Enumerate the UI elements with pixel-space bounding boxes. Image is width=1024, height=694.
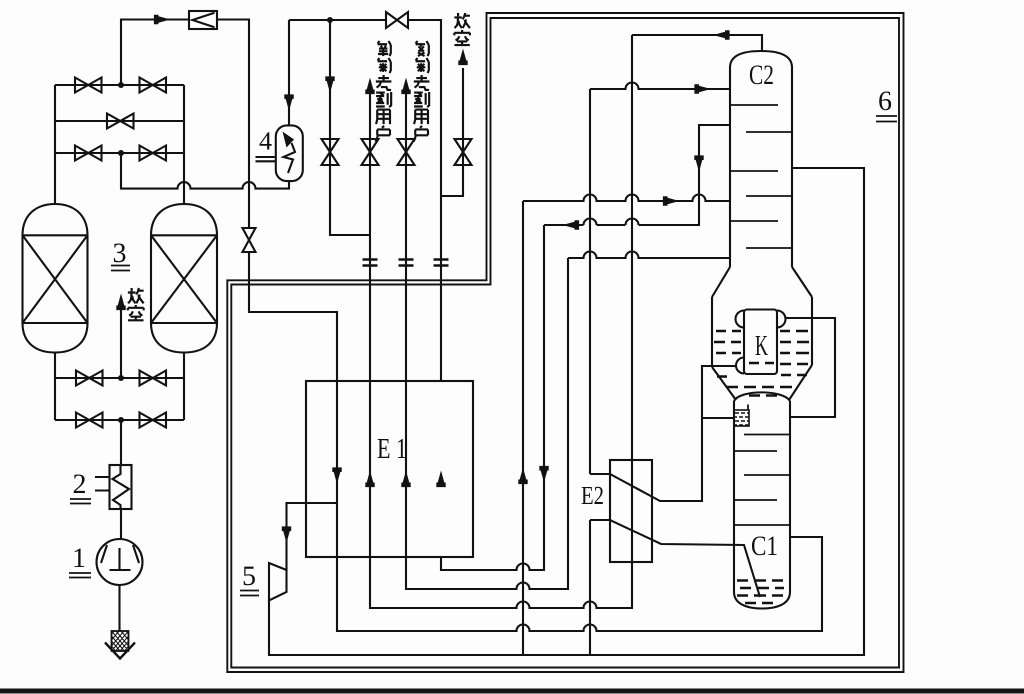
suction filter with hatch: [105, 631, 135, 659]
bottom scan bar: [0, 689, 1024, 694]
C1 tray 1: [744, 434, 790, 436]
wire: oxygen return line yC608: [370, 35, 632, 608]
C1 tray 2: [734, 450, 777, 452]
C1 tray 5: [734, 524, 790, 526]
instrument 4 connection ticks: [256, 157, 276, 161]
valve V1a row85 left: [75, 78, 102, 93]
C2 tray 4: [746, 195, 792, 197]
valve V9 oxygen: [362, 139, 379, 165]
arrow right on H1: [663, 196, 680, 205]
wire: E2 upper pass: [590, 366, 736, 501]
liquid level dashes in C1 sump: [737, 581, 784, 604]
label: vent text top right: [454, 13, 470, 45]
cold box wall crossing ticks on oxygen line: [363, 260, 378, 266]
label 5 with double underline: [240, 561, 259, 596]
wire: upper valve row y85: [55, 84, 184, 86]
svg-text:1: 1: [72, 543, 86, 574]
C1 tray 3: [744, 474, 790, 476]
condenser shell cone top: [712, 267, 812, 297]
wire: instrument return line from J2 down and right to capsule 4: [121, 153, 289, 189]
arrow left on H2: [563, 220, 580, 229]
C1 tray 4: [734, 499, 777, 501]
wire: E2 upper pass branch into C1 hatch feed: [702, 417, 734, 419]
turbo expander 5: [269, 563, 287, 601]
pointer inside instrument 4: [283, 132, 295, 148]
condenser shell walls: [712, 297, 812, 367]
node J5 on header: [327, 17, 333, 23]
lower column C1 walls: [734, 401, 790, 592]
valve V2 row121 center: [107, 114, 134, 129]
svg-text:K: K: [755, 330, 768, 362]
arrow down on vent return riser: [539, 466, 548, 483]
wire: C2 overhead gas line to oxygen return: [632, 35, 762, 51]
wire: E2 lower pass into C1 sump: [590, 520, 760, 597]
wire: adsorber A top riser: [54, 85, 56, 204]
C2 tray 2: [746, 131, 792, 133]
wire: air feed line yD631 to column C1: [337, 537, 822, 631]
wire: reflux line H0 into C2 top: [590, 83, 730, 475]
valve V4a row378 left: [76, 371, 103, 386]
label: nitrogen-to-users column text: [414, 41, 430, 142]
valve V4b row378 right: [140, 371, 167, 386]
wire: compressor suction: [118, 585, 120, 631]
wire: product header y20: [289, 20, 441, 381]
wire: adsorber B bottom riser: [183, 353, 185, 421]
cold box wall crossing ticks on vent line: [434, 260, 449, 266]
arrow down into instrument 4: [284, 94, 293, 111]
adsorber vessel 3A: [23, 204, 88, 353]
label: vent text at adsorbers: [128, 288, 144, 320]
C2 tray 1: [730, 104, 778, 106]
throttle hatch box on C1 top: [734, 405, 749, 427]
wire: HX2 to compressor: [120, 509, 122, 539]
svg-text:4: 4: [259, 127, 272, 156]
wire: oxygen product line x370: [369, 92, 371, 557]
cold box 6 inner border: [231, 18, 899, 668]
condenser shell cone bottom: [712, 365, 812, 400]
wire: vent return line yA570: [441, 225, 544, 570]
valve V3a row153 left: [75, 146, 102, 161]
wire: bottom valve row y420: [55, 419, 184, 421]
node J4: [118, 417, 124, 423]
svg-text:2: 2: [73, 469, 87, 500]
valve V6b row420 right: [140, 413, 167, 428]
C2 tray 6: [746, 247, 792, 249]
vent arrow near adsorbers: [116, 294, 125, 311]
compressor/blower 1: [97, 539, 143, 585]
instrument capsule 4: [276, 125, 303, 181]
node J2: [118, 150, 124, 156]
arrow down on purge line: [325, 76, 334, 93]
wire: nitrogen product line x406: [405, 92, 407, 557]
arrow down into expander: [282, 526, 291, 543]
label 6 with double underline: [876, 86, 897, 122]
liquid dashes in condenser shell: [714, 331, 809, 396]
wire: adsorber B top riser: [183, 85, 185, 204]
C2 tray 3: [730, 170, 778, 172]
valve V11 vent: [455, 139, 472, 165]
valve V6a row420 left: [76, 413, 103, 428]
wire: regen line into cold box to E1 line1: [249, 252, 337, 557]
wire: expander outlet to bottom header: [269, 168, 864, 655]
wire: K drum vapour line to x835: [786, 318, 836, 417]
valve V5 on regeneration line x249: [243, 228, 256, 252]
label 1 with double underline: [69, 543, 91, 578]
node J3: [118, 375, 124, 381]
arrow up vent outlet: [458, 49, 467, 66]
wire: lower valve row y153: [55, 152, 184, 154]
arrow right on top manifold: [154, 15, 171, 24]
wire: adsorber vent stack: [120, 310, 122, 378]
wire: expander feed branch: [287, 503, 338, 570]
arrow up on expander air riser: [518, 468, 527, 485]
svg-text:6: 6: [878, 86, 892, 117]
wire: bottom valve row y378: [55, 377, 184, 379]
node J1: [118, 82, 124, 88]
cold box wall crossing ticks on nitrogen line: [399, 260, 414, 266]
wire: nitrogen return line yB589: [406, 258, 568, 589]
label 2 with double underline: [70, 469, 91, 504]
valve V1b row85 right: [140, 78, 167, 93]
arrow up in E1 nitrogen line: [401, 471, 410, 488]
wire: C2 upper draw to vent x699: [544, 125, 730, 225]
arrow up in E1 oxygen line: [365, 471, 374, 488]
valve V8 on purge line: [322, 139, 339, 165]
svg-text:5: 5: [242, 561, 256, 592]
wire: compressor discharge top manifold left: [121, 20, 249, 229]
arrow up in E1 vent line: [436, 471, 445, 488]
arrow up oxygen outlet: [365, 78, 374, 95]
C1 bottom cap: [734, 592, 790, 609]
arrow left on C2 overhead: [713, 30, 730, 39]
subcooler E2 box: [610, 460, 652, 562]
arrow right on H0: [694, 84, 711, 93]
C2 tray 5: [730, 220, 778, 222]
wire: feed riser to heat exchanger 2: [120, 420, 122, 465]
svg-text:E 1: E 1: [377, 433, 407, 465]
svg-text:E2: E2: [581, 481, 604, 510]
label 3 with double underline: [111, 238, 130, 271]
main heat exchanger E1: [306, 381, 473, 557]
wire: purge drop line x330: [330, 20, 370, 235]
wire: middle valve row y121: [55, 120, 184, 122]
upper column C2 shell: [730, 51, 792, 267]
condenser drum K: [736, 310, 786, 375]
label: oxygen-to-users column text: [376, 41, 392, 142]
svg-text:3: 3: [113, 238, 127, 269]
wire: adsorber A bottom riser: [54, 353, 56, 421]
cold box 6 outer border: [227, 13, 903, 672]
wire: expander air line H1 into C2: [523, 195, 730, 201]
arrow down in E1 air line: [332, 467, 341, 484]
lower column C1 dome: [734, 392, 790, 401]
heat exchanger E0 (label 2): [95, 465, 132, 509]
wire: instrument 4 inlet from manifold: [288, 20, 290, 125]
wire: vent stack x463: [441, 68, 463, 196]
arrow up nitrogen outlet: [401, 78, 410, 95]
arrow down on x699 draw: [694, 155, 703, 172]
valve V3b row153 right: [140, 146, 167, 161]
valve V7 on product header: [386, 12, 408, 28]
valve V10 nitrogen: [398, 139, 415, 165]
filter/silencer F1 at top: [189, 11, 217, 29]
adsorber vessel 3B: [151, 204, 217, 353]
svg-text:C2: C2: [749, 60, 774, 91]
svg-text:C1: C1: [751, 531, 778, 562]
wire: nitrogen return H3 into C2: [568, 252, 730, 258]
